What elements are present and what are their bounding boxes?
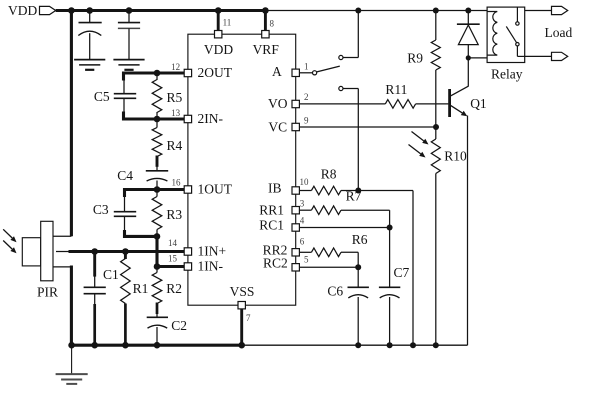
svg-text:VC: VC	[268, 119, 287, 134]
svg-text:7: 7	[246, 313, 251, 323]
svg-text:R10: R10	[444, 148, 467, 163]
svg-text:R1: R1	[133, 281, 149, 296]
svg-text:5: 5	[304, 254, 309, 264]
svg-text:R8: R8	[321, 166, 337, 181]
svg-text:2IN-: 2IN-	[198, 111, 224, 126]
svg-text:10: 10	[300, 177, 310, 187]
svg-text:13: 13	[171, 108, 181, 118]
svg-text:4: 4	[300, 215, 305, 225]
svg-text:RC1: RC1	[259, 218, 284, 233]
svg-text:C6: C6	[327, 284, 343, 299]
svg-text:9: 9	[304, 116, 309, 126]
svg-text:A: A	[272, 64, 282, 79]
svg-text:C3: C3	[93, 202, 109, 217]
svg-text:C7: C7	[394, 265, 410, 280]
svg-text:IB: IB	[268, 181, 282, 196]
svg-text:2OUT: 2OUT	[198, 65, 233, 80]
svg-text:VDD: VDD	[8, 3, 37, 18]
svg-text:R7: R7	[346, 189, 362, 204]
svg-text:R2: R2	[166, 281, 182, 296]
svg-text:Relay: Relay	[491, 66, 523, 81]
svg-text:6: 6	[300, 236, 305, 246]
svg-text:1: 1	[304, 62, 309, 72]
svg-text:VRF: VRF	[253, 42, 280, 57]
svg-text:1IN+: 1IN+	[198, 244, 227, 259]
svg-text:8: 8	[270, 19, 275, 29]
svg-text:PIR: PIR	[37, 285, 58, 300]
svg-text:11: 11	[223, 18, 232, 28]
svg-text:Load: Load	[545, 25, 573, 40]
svg-text:R6: R6	[352, 232, 368, 247]
svg-text:VDD: VDD	[204, 42, 233, 57]
svg-text:16: 16	[172, 177, 182, 187]
svg-text:RC2: RC2	[263, 256, 288, 271]
svg-text:C4: C4	[117, 168, 133, 183]
svg-text:14: 14	[168, 238, 178, 248]
svg-text:R9: R9	[407, 50, 423, 65]
svg-text:C2: C2	[171, 318, 187, 333]
svg-text:2: 2	[304, 92, 309, 102]
svg-text:3: 3	[300, 198, 305, 208]
svg-text:R3: R3	[166, 207, 182, 222]
svg-text:R4: R4	[167, 138, 183, 153]
svg-text:RR1: RR1	[259, 202, 284, 217]
svg-text:R5: R5	[167, 90, 183, 105]
svg-text:C5: C5	[94, 89, 110, 104]
svg-text:1IN-: 1IN-	[198, 259, 224, 274]
svg-text:12: 12	[171, 62, 180, 72]
svg-text:Q1: Q1	[470, 96, 487, 111]
svg-text:1OUT: 1OUT	[198, 182, 233, 197]
svg-text:VO: VO	[268, 96, 288, 111]
svg-text:R11: R11	[385, 82, 407, 97]
svg-text:15: 15	[168, 254, 178, 264]
svg-text:VSS: VSS	[230, 284, 255, 299]
svg-text:C1: C1	[103, 267, 119, 282]
